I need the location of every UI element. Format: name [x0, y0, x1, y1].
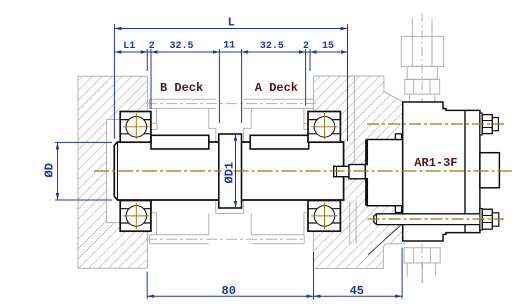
- resolver front face: [365, 140, 367, 206]
- arrowheads dimension L: [114, 27, 347, 30]
- top connector centerline: [421, 13, 423, 107]
- B deck sleeve on shaft: [151, 135, 209, 149]
- phantom bearing pocket top-left: [151, 123, 158, 129]
- drum tube centerline bottom (gray dash-dot): [146, 238, 306, 240]
- svg-text:A Deck: A Deck: [255, 81, 298, 95]
- bearing top-right: [308, 112, 340, 143]
- arrowheads dimensions 80 and 45: [147, 295, 402, 298]
- phantom top cable connector on resolver: [401, 19, 443, 102]
- bottom bolt centerline: [368, 218, 505, 220]
- right wall boundary lines: [313, 76, 402, 269]
- svg-text:15: 15: [322, 41, 334, 52]
- resolver AR1-3F body: [403, 102, 480, 241]
- svg-text:L: L: [228, 15, 235, 29]
- phantom housing bore around middle disk: [209, 108, 252, 234]
- middle disk (diameter D1): [219, 134, 242, 208]
- left mounting wall (hatched section): [78, 76, 147, 268]
- phantom bearing pocket bottom-right: [304, 213, 309, 235]
- resolver rear block: [480, 153, 500, 188]
- svg-text:ØD: ØD: [43, 163, 57, 177]
- svg-text:2: 2: [303, 41, 309, 52]
- plate key square top: [395, 134, 401, 140]
- dimension diameter D1: [235, 134, 237, 208]
- coupling boss: [349, 165, 365, 179]
- phantom cable wire corner: [383, 244, 405, 269]
- top mounting bolt: [480, 113, 499, 135]
- resolver shaft stub: [334, 166, 349, 176]
- svg-text:B Deck: B Deck: [160, 81, 203, 95]
- wall section cut edge diagonal: [368, 225, 401, 254]
- drum tube centerline top (gray dash-dot): [146, 103, 316, 105]
- phantom housing drum tube above decks: [150, 99, 314, 123]
- plate key square bottom: [395, 206, 401, 213]
- phantom housing drum tube below decks: [150, 213, 305, 244]
- phantom bearing pocket bottom-left: [152, 201, 157, 213]
- svg-text:AR1-3F: AR1-3F: [414, 156, 457, 170]
- dimension chain row: L1 2 32.5 11 32.5 2 15: [114, 49, 347, 123]
- svg-text:32.5: 32.5: [170, 41, 194, 52]
- bearing bottom-right: [308, 201, 340, 232]
- bottom connector centerline: [421, 244, 423, 283]
- svg-text:45: 45: [350, 284, 364, 298]
- arrowheads diameter D: [56, 142, 59, 200]
- bearing top-left: [120, 112, 151, 143]
- svg-text:L1: L1: [123, 41, 135, 52]
- phantom lines beside shaft right end: [350, 76, 356, 244]
- arrowheads diameter D1: [234, 134, 237, 208]
- phantom bearing pocket top-right: [304, 108, 309, 129]
- part labels B Deck / A Deck / AR1-3F: [160, 81, 458, 170]
- bearing bottom-left: [120, 201, 151, 232]
- svg-text:2: 2: [149, 41, 155, 52]
- svg-text:32.5: 32.5: [260, 41, 284, 52]
- A deck sleeve on shaft: [250, 135, 309, 149]
- top bolt centerline: [367, 123, 504, 125]
- dimension 80 and 45 bottom chain: [147, 248, 402, 300]
- svg-text:11: 11: [223, 41, 235, 52]
- bottom mounting bolt with long shank: [374, 209, 499, 231]
- svg-text:80: 80: [222, 284, 236, 298]
- dimension L overall: [114, 24, 347, 141]
- main shaft: [114, 142, 343, 200]
- resolver adapter plate: [365, 140, 402, 206]
- phantom bottom connector on resolver: [404, 248, 440, 284]
- dimension texts L, 80, 45, diameters: [43, 15, 364, 298]
- dimension diameter D: [55, 142, 112, 200]
- arrowheads dimension chain row: [114, 50, 347, 53]
- main shaft centerline (orange dash-dot): [94, 170, 512, 172]
- dimension texts row 2: [123, 41, 334, 53]
- svg-text:ØD1: ØD1: [222, 162, 236, 184]
- right mounting wall upper hatched section: [313, 76, 402, 269]
